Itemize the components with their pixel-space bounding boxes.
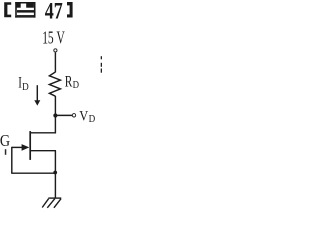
svg-text:47: 47 — [45, 0, 63, 23]
svg-text:G: G — [0, 131, 10, 150]
svg-text:D: D — [73, 80, 79, 91]
svg-text:D: D — [22, 81, 29, 93]
svg-text:V: V — [79, 108, 88, 125]
svg-text:D: D — [89, 114, 96, 125]
svg-text:15 V: 15 V — [42, 28, 65, 48]
svg-text:R: R — [65, 72, 73, 90]
